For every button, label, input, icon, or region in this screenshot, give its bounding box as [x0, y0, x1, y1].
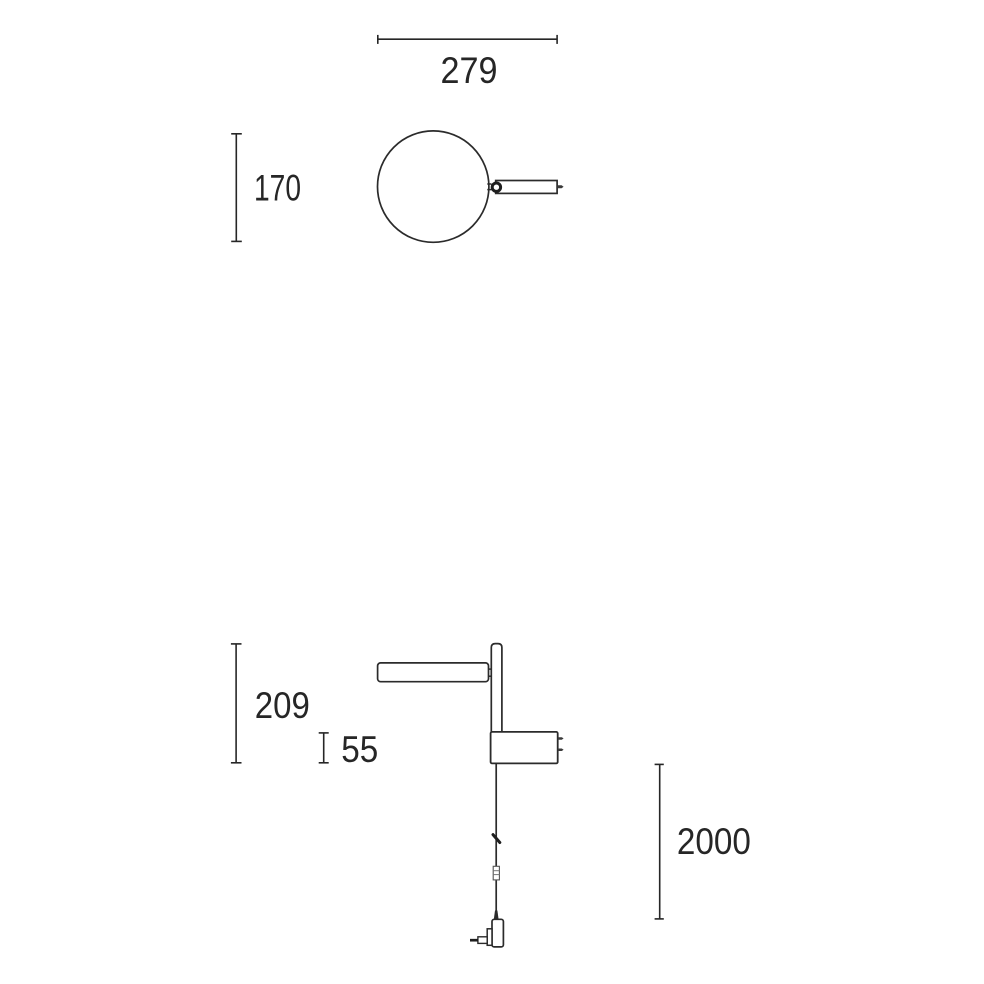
plug middle section [487, 929, 492, 946]
svg-text:170: 170 [254, 167, 301, 208]
power cord [495, 763, 497, 913]
lamp head circle (top view) [378, 131, 489, 242]
svg-text:209: 209 [255, 685, 310, 726]
dimension line 170 (vertical, left of top view) [231, 134, 242, 242]
vertical post (side view) [491, 644, 502, 732]
strain relief into plug [494, 911, 499, 920]
lamp arm (side view, horizontal tube) [378, 663, 489, 682]
dimension line 55 (vertical, small) [319, 733, 329, 763]
inline cord connector [493, 866, 499, 880]
wall mount box (side view) [491, 732, 558, 764]
plug prong [470, 939, 478, 942]
arm-to-post connector notch [489, 669, 492, 676]
cord kink mark [493, 835, 500, 843]
plug body [492, 919, 503, 947]
dimension line 209 (vertical, left of side view) [231, 644, 242, 763]
plug neck [478, 937, 487, 944]
dimension line 279 (horizontal, top) [378, 35, 557, 44]
terminal nub upper (right of box) [558, 737, 564, 740]
arm tube (top view) [496, 181, 557, 194]
dimension line 2000 (vertical, right) [655, 764, 664, 919]
svg-text:279: 279 [441, 50, 498, 91]
svg-text:2000: 2000 [677, 821, 751, 862]
svg-text:55: 55 [341, 729, 378, 770]
terminal nub lower (right of box) [558, 749, 564, 752]
arm end nub (top view) [557, 185, 563, 188]
pivot ring [492, 183, 500, 191]
fork bracket between head and pivot [487, 184, 491, 190]
